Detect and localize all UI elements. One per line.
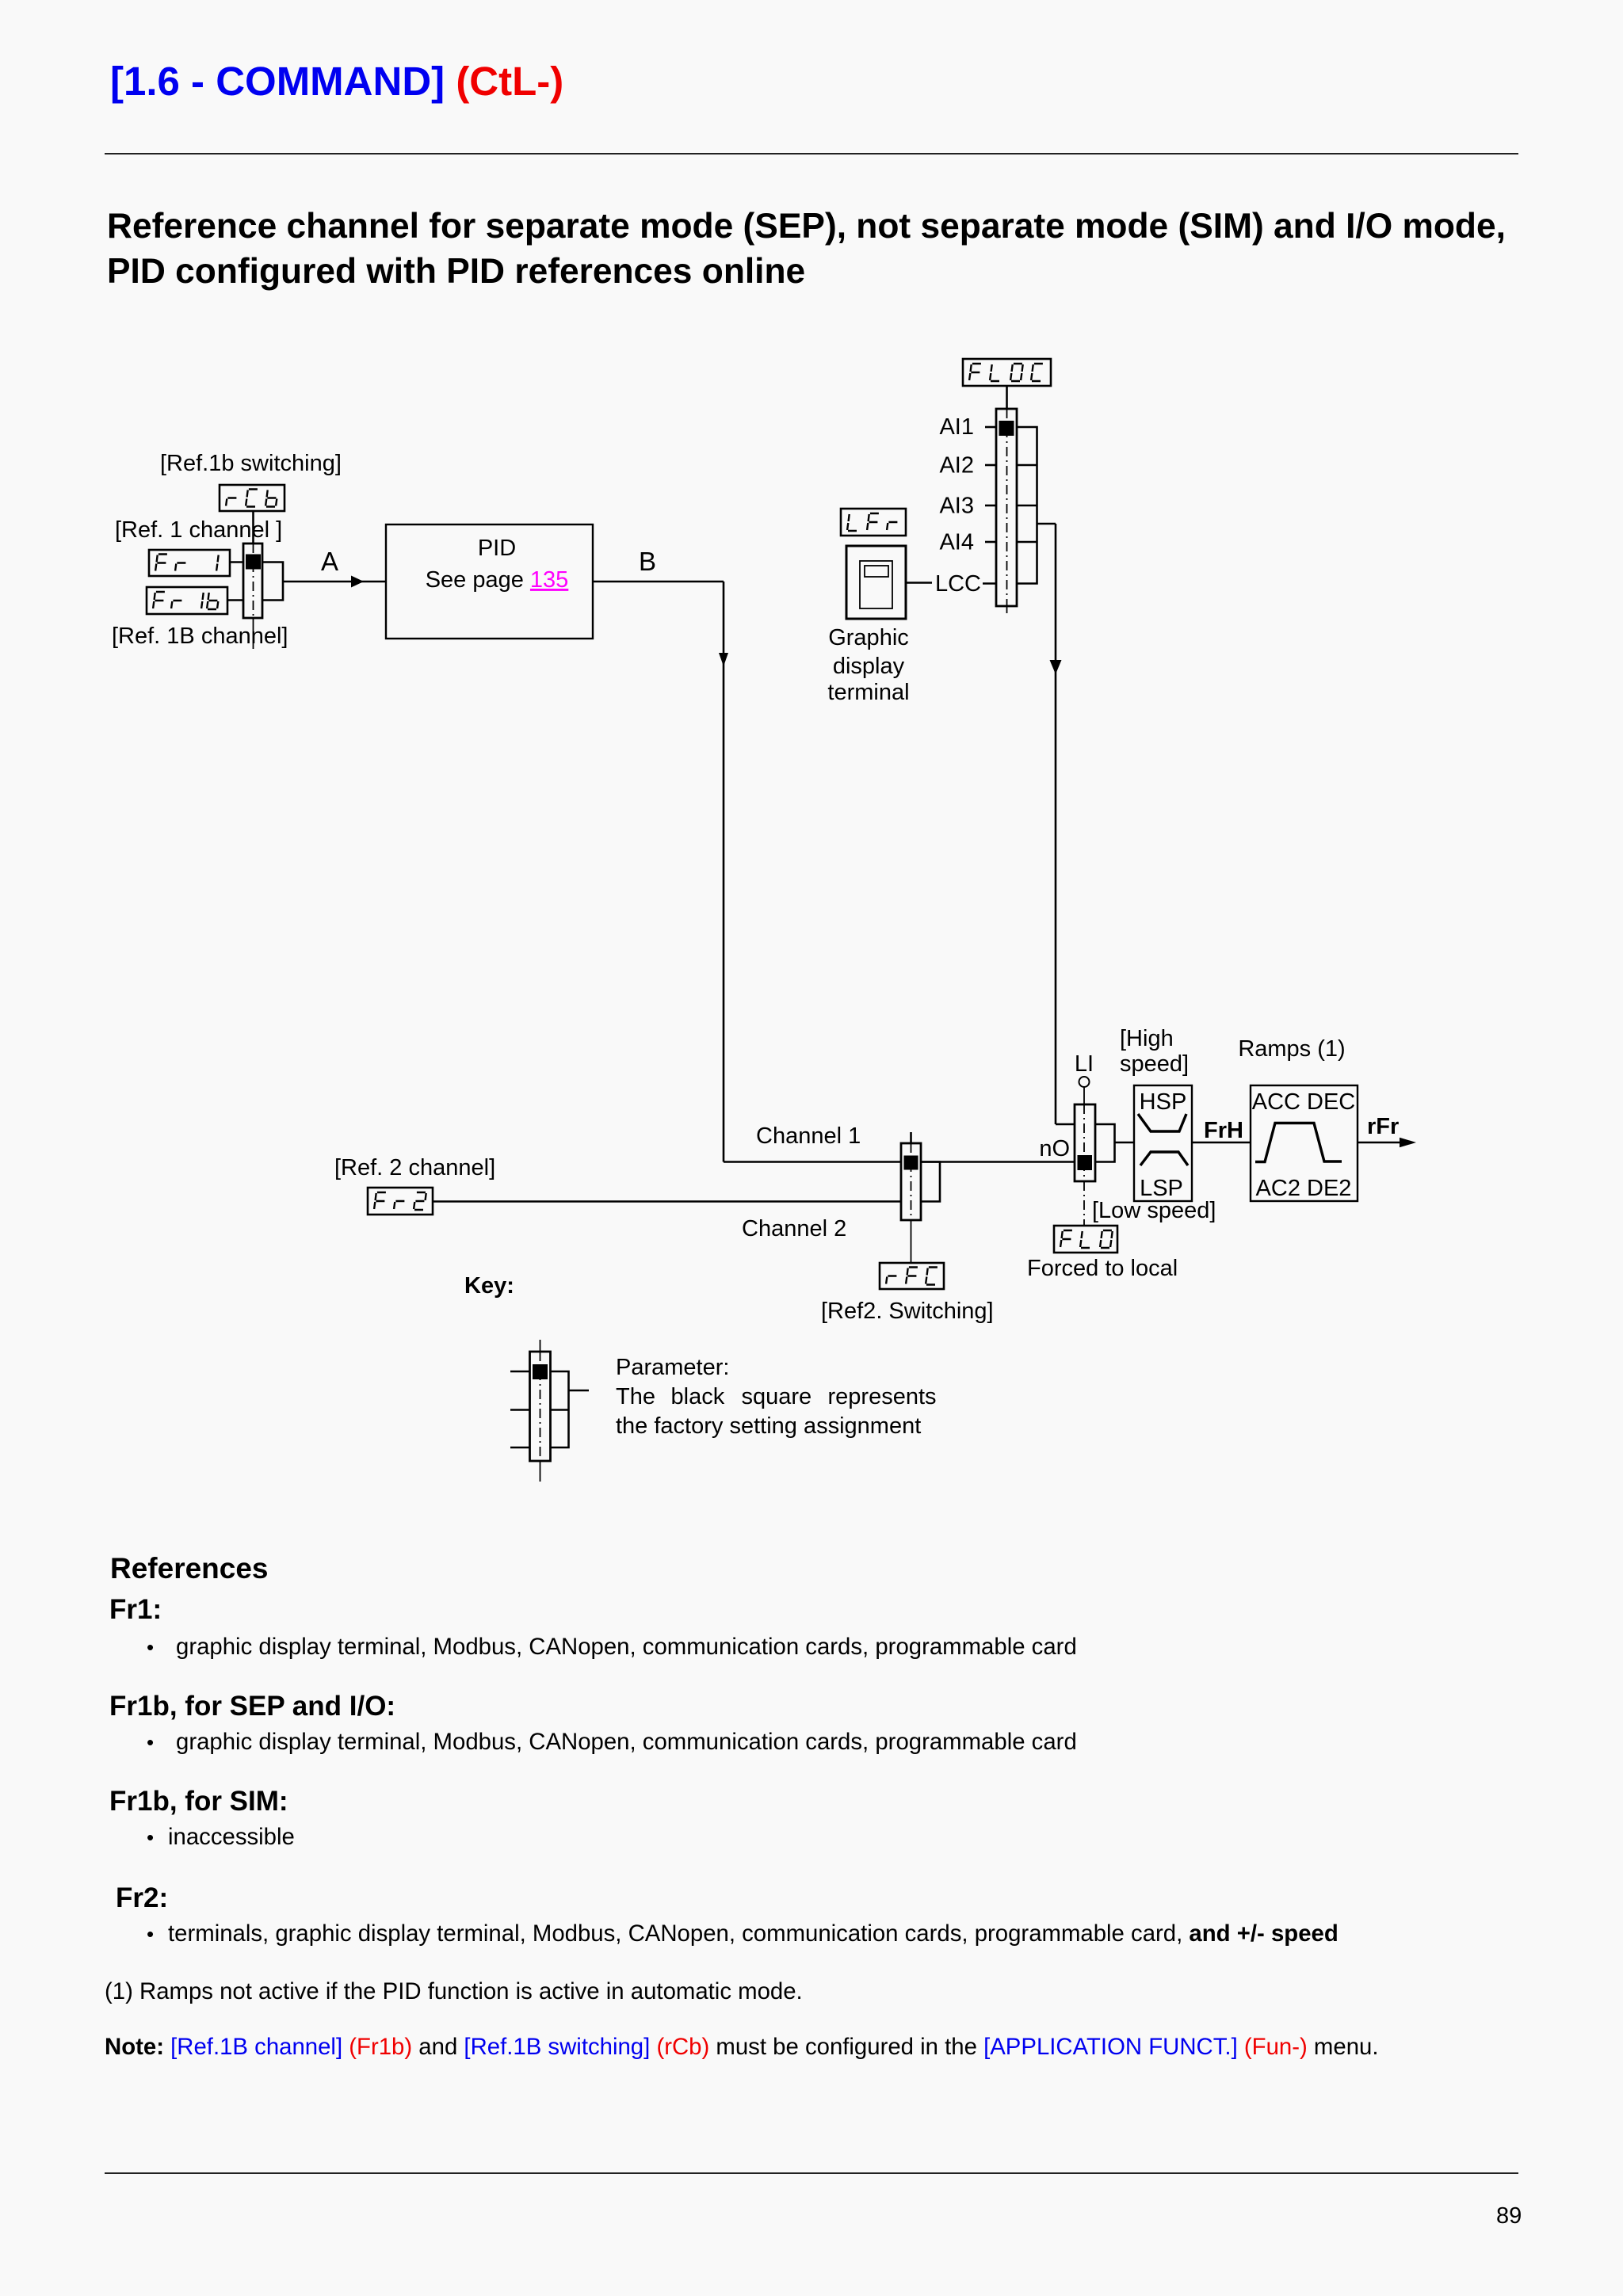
- svg-text:terminal: terminal: [827, 680, 909, 705]
- svg-text:AI3: AI3: [939, 494, 974, 519]
- input tick AI2: [985, 464, 996, 467]
- input tick AI1: [985, 426, 996, 429]
- selector switch forced-local (nO): [1075, 1104, 1095, 1226]
- svg-text:A: A: [321, 547, 338, 576]
- arrowhead B arrow: [719, 653, 728, 666]
- selector switch FLOC (forced local ref): [996, 409, 1017, 617]
- svg-text:PID: PID: [478, 536, 516, 561]
- page title: [110, 59, 563, 105]
- parameter box rFC: [880, 1263, 944, 1289]
- parameter box rCb: [220, 485, 285, 511]
- svg-text:ACC DEC: ACC DEC: [1252, 1089, 1356, 1115]
- PID function block: [386, 524, 593, 639]
- AI comb: [1017, 427, 1037, 584]
- wire Fr1 input: [230, 561, 243, 563]
- wire Channel 1: [724, 1161, 901, 1163]
- wire nO output: [1115, 1142, 1135, 1144]
- parameter box LFr: [841, 509, 906, 536]
- svg-text:[Ref. 1B channel]: [Ref. 1B channel]: [112, 624, 288, 649]
- wire terminal to LCC: [906, 582, 932, 584]
- rFC output comb: [921, 1162, 940, 1202]
- svg-text:[Ref2. Switching]: [Ref2. Switching]: [821, 1299, 994, 1324]
- graphic display terminal icon: [846, 546, 906, 619]
- svg-text:B: B: [639, 547, 656, 576]
- svg-text:Key:: Key:: [464, 1273, 514, 1299]
- wire FrH wire: [1192, 1142, 1251, 1144]
- parameter box Fr2: [368, 1188, 433, 1215]
- wire rFr wire: [1358, 1142, 1403, 1144]
- arrowhead rFr arrow: [1400, 1138, 1416, 1148]
- svg-text:FrH: FrH: [1204, 1118, 1243, 1143]
- arrowhead A arrow: [351, 576, 364, 588]
- svg-text:[Ref. 1 channel ]: [Ref. 1 channel ]: [115, 517, 282, 543]
- factory setting black square (Fr1): [246, 555, 261, 570]
- wire B horizontal: [593, 581, 724, 583]
- HSP/LSP limiter block: [1134, 1085, 1192, 1201]
- svg-text:Channel 1: Channel 1: [756, 1123, 861, 1149]
- arrowhead AI output arrow: [1050, 660, 1062, 674]
- wire LI to selector: [1083, 1087, 1085, 1104]
- svg-text:[High: [High: [1120, 1026, 1174, 1051]
- svg-text:LSP: LSP: [1140, 1176, 1183, 1201]
- selector switch [Ref.1b switching]: [243, 543, 262, 649]
- svg-text:[Ref. 2 channel]: [Ref. 2 channel]: [334, 1155, 495, 1180]
- factory setting black square (Channel 1): [904, 1156, 918, 1170]
- svg-text:represents: represents: [828, 1384, 937, 1409]
- selector switch [Ref2. Switching]: [901, 1132, 921, 1263]
- svg-text:black: black: [671, 1384, 725, 1409]
- wire A output: [283, 581, 386, 583]
- nO comb: [1095, 1124, 1115, 1162]
- wire AI output vertical: [1055, 524, 1057, 1124]
- svg-text:AC2 DE2: AC2 DE2: [1256, 1176, 1352, 1201]
- references heading: [110, 1552, 269, 1586]
- factory setting black square (AI1): [999, 421, 1014, 436]
- svg-text:LCC: LCC: [935, 571, 981, 597]
- wire FLOC to selector: [1006, 386, 1008, 409]
- key selector symbol: [510, 1340, 589, 1482]
- svg-text:AI2: AI2: [939, 453, 974, 479]
- wire Channel 2: [433, 1200, 901, 1203]
- input tick AI4: [985, 541, 996, 543]
- svg-text:square: square: [742, 1384, 812, 1409]
- svg-text:Parameter:: Parameter:: [616, 1355, 729, 1380]
- svg-text:[Ref.1b switching]: [Ref.1b switching]: [160, 451, 342, 476]
- parameter box FLO: [1054, 1226, 1117, 1253]
- input tick AI3: [985, 505, 996, 507]
- wire AI output: [1037, 523, 1056, 525]
- svg-text:Ramps (1): Ramps (1): [1238, 1036, 1345, 1062]
- svg-text:nO: nO: [1039, 1136, 1070, 1161]
- section heading: [107, 204, 1506, 294]
- svg-text:Forced to local: Forced to local: [1027, 1256, 1178, 1281]
- parameter box Fr1: [149, 550, 230, 576]
- top rule: [105, 153, 1518, 154]
- wire rCb to selector: [252, 511, 254, 544]
- wire B vertical: [723, 582, 725, 1162]
- svg-text:rFr: rFr: [1367, 1114, 1399, 1139]
- svg-text:LI: LI: [1075, 1051, 1094, 1077]
- selector output comb: [262, 563, 283, 601]
- svg-text:HSP: HSP: [1140, 1089, 1187, 1115]
- svg-text:AI1: AI1: [939, 414, 974, 440]
- key factory setting black square: [533, 1364, 548, 1379]
- bottom rule: [105, 2172, 1518, 2174]
- svg-text:Graphic: Graphic: [828, 625, 909, 650]
- svg-text:display: display: [833, 654, 905, 679]
- wire rFC output to nO: [921, 1161, 1075, 1163]
- wire AI output into nO: [1056, 1123, 1075, 1126]
- svg-text:AI4: AI4: [939, 530, 974, 555]
- svg-text:the factory setting assignment: the factory setting assignment: [616, 1413, 921, 1439]
- svg-text:speed]: speed]: [1120, 1051, 1189, 1077]
- LI contact circle: [1079, 1077, 1090, 1087]
- wire Fr1b input: [227, 599, 243, 601]
- parameter box FLOC: [963, 359, 1051, 386]
- svg-text:See page 135: See page 135: [426, 567, 569, 593]
- parameter box Fr1b: [147, 587, 227, 614]
- svg-text:The: The: [616, 1384, 655, 1409]
- input tick LCC: [983, 582, 996, 585]
- svg-text:Channel 2: Channel 2: [742, 1216, 846, 1241]
- ramps ACC DEC block: [1251, 1085, 1358, 1201]
- factory setting black square (nO): [1078, 1155, 1093, 1170]
